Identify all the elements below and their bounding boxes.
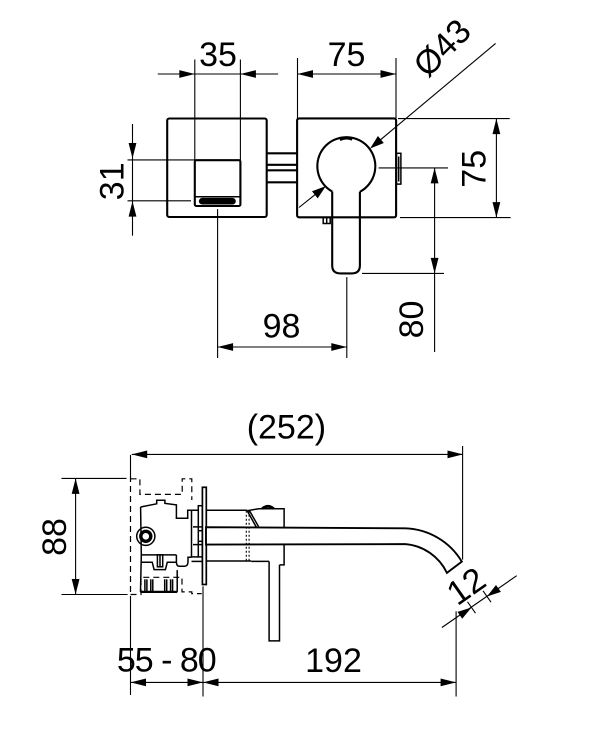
- rough-in box dashed outline bottom: [131, 577, 202, 594]
- aerator band line: [195, 196, 241, 198]
- connecting pipes between plates: [267, 152, 297, 154]
- inlet port outer circle: [137, 527, 155, 545]
- dimension 12 ticks: [468, 602, 476, 613]
- rough-in box dashed outline top: [131, 479, 192, 500]
- dimension 31 line: [132, 124, 134, 236]
- svg-text:75: 75: [456, 150, 494, 188]
- handle index notch: [340, 138, 353, 140]
- dimension 31 arrows: [129, 143, 137, 159]
- collar step lines: [193, 526, 202, 528]
- dimension 98 line: [218, 346, 347, 348]
- svg-text:75: 75: [328, 36, 366, 74]
- dimension 192 line: [203, 681, 456, 683]
- svg-text:88: 88: [36, 518, 74, 556]
- hatch box right edge: [176, 570, 178, 592]
- diameter 43 second arrow: [299, 194, 316, 207]
- svg-text:(252): (252): [247, 408, 326, 446]
- right wall plate: [297, 118, 396, 217]
- spout tube (drawn over): [206, 527, 462, 573]
- cartridge cylinder: [206, 509, 247, 511]
- dimension 75 right line: [495, 119, 497, 218]
- handle dome: [262, 506, 274, 508]
- spout front square: [195, 160, 241, 206]
- cartridge face column: [198, 506, 202, 557]
- left wall plate: [167, 119, 267, 218]
- escutcheon plate (side): [202, 487, 206, 584]
- dimension 12 line: [442, 576, 517, 628]
- svg-text:192: 192: [305, 642, 362, 680]
- dimension 55-80 extension right: [202, 586, 204, 696]
- side clip on right plate: [397, 153, 401, 184]
- svg-text:55 - 80: 55 - 80: [117, 642, 216, 680]
- screw tab under plate: [323, 217, 330, 223]
- handle body: [247, 509, 284, 565]
- cartridge joint hidden lines: [245, 511, 247, 561]
- aerator slot (dark): [199, 198, 236, 205]
- dimension 35 extension lines: [194, 60, 196, 161]
- valve body hanging tab: [157, 555, 162, 567]
- handle escutcheon circle: [317, 137, 375, 192]
- diameter 43 leader line: [380, 43, 496, 140]
- dimension 88 line: [75, 478, 77, 594]
- wall line (dashed): [130, 455, 132, 476]
- valve body hatch lines: [144, 579, 146, 592]
- valve body right lower step: [176, 555, 191, 566]
- svg-text:31: 31: [93, 162, 131, 200]
- dimension 88 extension lines: [62, 477, 127, 479]
- cartridge sleeve vertical: [191, 510, 193, 557]
- dimension 12 arrows: [458, 608, 472, 619]
- dimension 35 arrows: [179, 70, 195, 78]
- dimension 75 top extension lines: [297, 58, 299, 118]
- dimension 80 extension lines: [379, 167, 448, 169]
- svg-text:98: 98: [263, 308, 301, 346]
- dimension 80 line: [434, 168, 436, 352]
- svg-text:35: 35: [199, 36, 237, 74]
- dimension 75 right arrows: [493, 119, 501, 135]
- handle lever stem (front): [332, 192, 360, 274]
- dimension 75 top line: [298, 73, 397, 75]
- dimension 80 arrows: [431, 168, 439, 184]
- hatch box bottom edge: [140, 591, 177, 593]
- lever stem (side): [269, 561, 279, 641]
- svg-text:80: 80: [393, 301, 431, 339]
- dimension 98 extension lines: [217, 209, 219, 358]
- dimension 75 right extension lines: [398, 118, 510, 120]
- dimension 31 extension lines: [128, 159, 195, 161]
- valve body outline: [141, 500, 199, 555]
- inlet port ring: [141, 531, 151, 541]
- dimension 35 line: [158, 73, 278, 75]
- dimension 75 top arrows: [298, 70, 314, 78]
- valve body second bottom line with dip: [141, 562, 177, 569]
- valve body lower left edge: [140, 555, 143, 592]
- dimension (252) line: [132, 453, 463, 455]
- dimension 192 right extension: [455, 611, 457, 696]
- dimension 55-80 line: [131, 681, 204, 683]
- dimension 98 arrows: [218, 343, 234, 351]
- dimension (252) right extension: [462, 446, 464, 560]
